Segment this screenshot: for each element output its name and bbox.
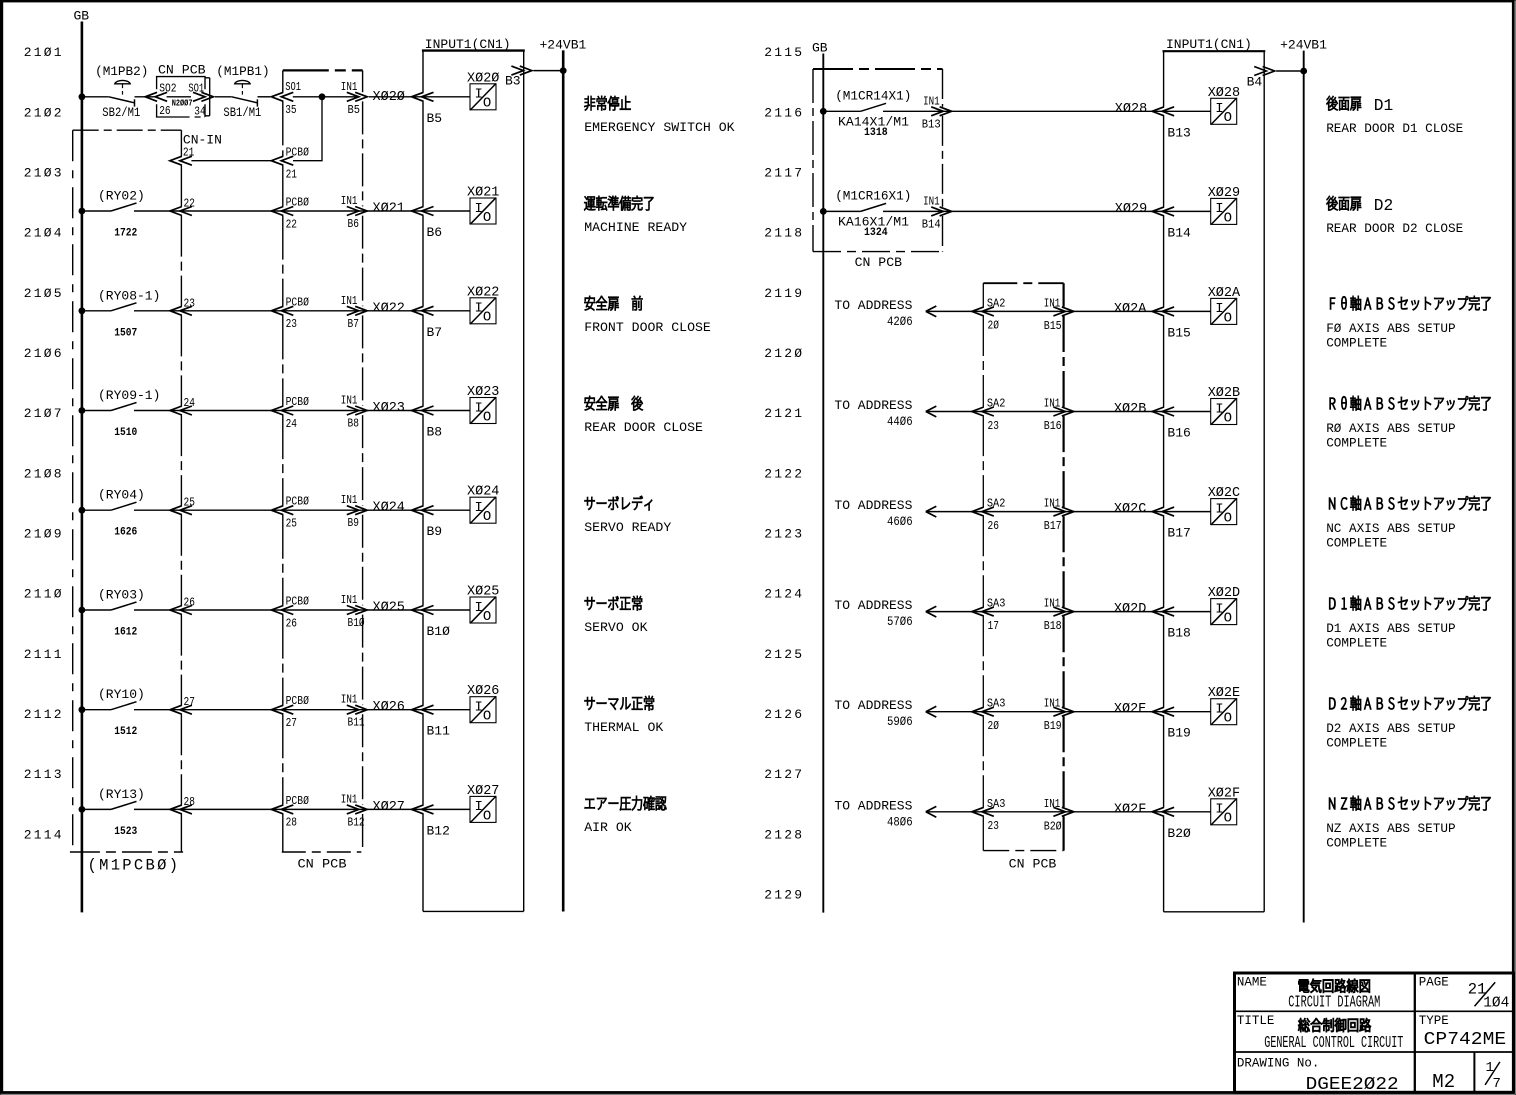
svg-text:TO ADDRESS: TO ADDRESS [834, 298, 912, 313]
relay contact (RY03) value 1612 [98, 588, 145, 639]
junction GB row X029 [820, 208, 827, 215]
svg-text:2112: 2112 [24, 707, 64, 722]
connector pin 23 (CN-IN) chevron [170, 296, 195, 315]
I/O module X029 [1208, 186, 1240, 226]
title block TYPE cell [1419, 1014, 1506, 1050]
svg-text:B12: B12 [427, 823, 450, 838]
svg-text:I: I [1215, 802, 1223, 818]
connector pin B18 chevron (INPUT1) [1152, 607, 1191, 641]
I/O module X02A [1208, 286, 1241, 326]
connector pin IN1/B9 chevron [341, 493, 367, 530]
svg-text:XØ28: XØ28 [1115, 102, 1147, 117]
wire GB to relay RY08-1 [82, 310, 111, 312]
svg-text:XØ2D: XØ2D [1114, 602, 1146, 617]
svg-text:B1Ø: B1Ø [348, 616, 365, 630]
svg-text:I: I [475, 799, 483, 815]
svg-text:I: I [475, 400, 483, 416]
svg-text:TO ADDRESS: TO ADDRESS [834, 798, 912, 813]
connector pin 27 (CN-IN) chevron [170, 695, 195, 714]
svg-text:44Ø6: 44Ø6 [887, 414, 913, 429]
svg-text:21Ø6: 21Ø6 [24, 346, 64, 361]
svg-text:1510: 1510 [114, 427, 137, 439]
svg-text:IN1: IN1 [923, 194, 940, 208]
svg-text:SO1: SO1 [285, 80, 301, 94]
I/O module X02F [1208, 786, 1240, 826]
svg-text:IN1: IN1 [923, 94, 940, 108]
svg-text:22: 22 [286, 217, 297, 231]
svg-text:(M1PCBØ): (M1PCBØ) [88, 857, 181, 875]
label TO ADDRESS 4206 [834, 298, 912, 329]
svg-text:XØ24: XØ24 [373, 501, 405, 516]
svg-text:1Ø4: 1Ø4 [1483, 996, 1509, 1012]
wire GB to relay RY13 [82, 808, 111, 810]
I/O module X023 [467, 385, 499, 425]
svg-text:COMPLETE: COMPLETE [1326, 836, 1387, 851]
svg-text:24: 24 [286, 417, 297, 431]
svg-text:26: 26 [159, 104, 170, 118]
connector pin IN1/B13 chevron (CN PCB) [922, 94, 952, 131]
connector pin PCB0/27 chevron [271, 694, 309, 730]
svg-text:XØ2D: XØ2D [1208, 586, 1240, 601]
I/O module X02B [1208, 386, 1240, 426]
svg-text:DRAWING No.: DRAWING No. [1237, 1056, 1320, 1070]
label (jp) D1 AXIS ABS SETUP [1329, 596, 1490, 610]
svg-text:B5: B5 [427, 111, 443, 126]
wire relay to connector pins [134, 709, 470, 711]
connector pin SA3/17 chevron [972, 597, 1006, 633]
connector pin PCB0/28 chevron [271, 794, 309, 830]
title block sheet 1/7 cell [1485, 1060, 1501, 1092]
svg-text:SB2/M1: SB2/M1 [102, 106, 140, 120]
junction GB row X025 [79, 607, 86, 614]
svg-text:IN1: IN1 [1044, 497, 1061, 511]
label (jp) NC AXIS ABS SETUP [1329, 496, 1490, 510]
connector pin B11 chevron (INPUT1) [412, 705, 451, 739]
I/O module X026 [467, 684, 499, 724]
svg-text:(RY08-1): (RY08-1) [98, 288, 160, 303]
svg-text:B1Ø: B1Ø [427, 624, 451, 639]
svg-text:GENERAL CONTROL CIRCUIT: GENERAL CONTROL CIRCUIT [1264, 1033, 1403, 1052]
relay contact (RY09-1) value 1510 [98, 388, 160, 439]
svg-text:B8: B8 [427, 425, 443, 440]
svg-text:1523: 1523 [114, 826, 137, 838]
svg-text:(RY09-1): (RY09-1) [98, 388, 160, 403]
svg-text:21Ø9: 21Ø9 [24, 527, 64, 542]
connector pin 26 (CN-IN) chevron [170, 596, 195, 615]
connector pin PCB0/26 chevron [271, 595, 309, 631]
svg-text:42Ø6: 42Ø6 [887, 314, 913, 329]
wire GB to relay RY02 [82, 210, 111, 212]
svg-text:O: O [483, 210, 491, 226]
svg-text:XØ2C: XØ2C [1208, 486, 1240, 501]
relay contact (RY02) value 1722 [98, 189, 145, 240]
svg-text:O: O [483, 709, 491, 725]
svg-text:B7: B7 [427, 325, 443, 340]
relay contact (RY08-1) value 1507 [98, 288, 160, 339]
svg-text:SA3: SA3 [987, 797, 1006, 811]
wire branch down to PCB0/21 [293, 97, 322, 161]
svg-text:23: 23 [988, 819, 999, 833]
svg-text:XØ2C: XØ2C [1114, 502, 1146, 517]
junction GB row X023 [79, 407, 86, 414]
I/O module X022 [467, 285, 499, 325]
svg-text:2127: 2127 [764, 767, 804, 782]
push-button SB1/M1 (NC, M1PB1) [216, 64, 269, 120]
svg-text:IN1: IN1 [341, 80, 358, 94]
svg-text:B15: B15 [1044, 319, 1062, 333]
svg-text:2126: 2126 [764, 707, 804, 722]
svg-text:THERMAL OK: THERMAL OK [584, 720, 663, 735]
svg-text:2114: 2114 [24, 827, 64, 842]
line numbers 2115-2129 (right) [764, 45, 804, 902]
svg-text:I: I [475, 700, 483, 716]
svg-text:B2Ø: B2Ø [1167, 826, 1191, 841]
svg-text:24: 24 [184, 396, 195, 410]
svg-text:XØ2B: XØ2B [1114, 402, 1146, 417]
svg-text:21Ø2: 21Ø2 [24, 105, 64, 120]
svg-text:PCBØ: PCBØ [286, 794, 309, 808]
svg-text:XØ25: XØ25 [373, 601, 405, 616]
svg-text:SA2: SA2 [987, 497, 1006, 511]
relay contact (M1CR14X1) KA14X1/M1 value 1318 [835, 88, 911, 139]
wire relay to connector pins [134, 509, 470, 511]
wire relay to INPUT1 (net X029) [883, 210, 1211, 212]
svg-text:M2: M2 [1432, 1071, 1455, 1093]
label (jp) SERVO READY [585, 496, 652, 510]
svg-text:B18: B18 [1044, 619, 1062, 633]
svg-text:I: I [1215, 702, 1223, 718]
svg-text:D1: D1 [1374, 97, 1394, 116]
svg-text:B16: B16 [1167, 426, 1190, 441]
svg-text:B8: B8 [348, 417, 359, 431]
arrow to address 4406 [926, 406, 937, 417]
label (jp) AIR OK [585, 796, 667, 810]
svg-text:1324: 1324 [864, 227, 888, 239]
svg-text:2124: 2124 [764, 587, 804, 602]
svg-text:1318: 1318 [864, 127, 888, 139]
svg-text:2121: 2121 [764, 406, 804, 421]
connector pin IN1/B5 chevron [341, 80, 367, 117]
connector pin B14 chevron (INPUT1) [1152, 207, 1191, 241]
svg-text:XØ27: XØ27 [373, 800, 405, 815]
svg-text:21: 21 [183, 146, 194, 160]
svg-text:XØ2Ø: XØ2Ø [467, 71, 499, 86]
svg-text:23: 23 [184, 296, 195, 310]
svg-text:GB: GB [812, 41, 828, 56]
svg-text:O: O [1224, 210, 1232, 226]
svg-text:PCBØ: PCBØ [286, 146, 309, 160]
connector pin CN-IN/21 chevron [170, 133, 222, 166]
svg-text:AIR OK: AIR OK [584, 820, 632, 835]
wire relay to connector pins [134, 310, 470, 312]
svg-text:IN1: IN1 [341, 394, 358, 408]
wire CN PCB to SB1/M1 [215, 96, 232, 98]
svg-text:CP742ME: CP742ME [1424, 1030, 1507, 1050]
svg-text:XØ29: XØ29 [1208, 186, 1240, 201]
relay contact (RY10) value 1512 [98, 687, 145, 738]
wire relay to INPUT1 (net X028) [883, 110, 1211, 112]
connector pin IN1/B6 chevron [341, 194, 367, 231]
svg-text:(RY13): (RY13) [98, 787, 145, 802]
svg-text:211Ø: 211Ø [24, 587, 64, 602]
svg-text:28: 28 [286, 816, 297, 830]
svg-text:25: 25 [184, 496, 195, 510]
connector pin IN1/B18 chevron (SA box) [1044, 597, 1074, 634]
label (jp) RØ AXIS ABS SETUP [1330, 396, 1491, 410]
connector pin B19 chevron (INPUT1) [1152, 707, 1191, 741]
svg-text:21Ø4: 21Ø4 [24, 226, 64, 241]
svg-text:B6: B6 [427, 225, 443, 240]
wire GB to SB2/M1 [82, 96, 109, 98]
svg-text:21: 21 [286, 167, 297, 181]
arrow to address 5706 [926, 606, 937, 617]
svg-text:SERVO OK: SERVO OK [584, 620, 647, 635]
svg-text:D1 AXIS ABS SETUP: D1 AXIS ABS SETUP [1326, 621, 1455, 636]
svg-text:O: O [483, 609, 491, 625]
svg-text:(RY03): (RY03) [98, 588, 145, 603]
svg-text:O: O [483, 409, 491, 425]
svg-text:O: O [483, 310, 491, 326]
svg-text:O: O [483, 808, 491, 824]
I/O module X02C [1208, 486, 1240, 526]
svg-text:I: I [475, 600, 483, 616]
wire SB2 to CN PCB module [135, 96, 157, 98]
wire relay to connector pins [134, 410, 470, 412]
svg-text:B16: B16 [1044, 419, 1062, 433]
svg-text:XØ23: XØ23 [373, 401, 405, 416]
svg-text:B15: B15 [1167, 325, 1190, 340]
svg-text:XØ21: XØ21 [373, 202, 405, 217]
wire SB1 to pin SO1/35 [258, 96, 271, 98]
connector pin SO1/35 chevron [271, 80, 301, 117]
wire GB to relay RY04 [82, 509, 111, 511]
svg-text:26: 26 [286, 616, 297, 630]
svg-text:2117: 2117 [764, 166, 804, 181]
svg-text:SA2: SA2 [987, 296, 1006, 310]
connector pin B3 (+24V feed, left) [505, 66, 532, 88]
svg-text:I: I [1215, 201, 1223, 217]
svg-text:+24VB1: +24VB1 [1280, 38, 1327, 53]
junction GB row 2102 [79, 93, 86, 100]
wire inside CN PCB module [167, 96, 191, 98]
wire GB to relay RY10 [82, 709, 111, 711]
I/O module X024 [467, 485, 499, 525]
svg-text:21Ø8: 21Ø8 [24, 466, 64, 481]
boundary column CN-IN pins (dash-dot) [180, 130, 182, 852]
svg-text:O: O [1224, 711, 1232, 727]
connector pin B8 chevron (INPUT1) [412, 406, 443, 440]
connector pin SO2/26 chevron [145, 92, 167, 101]
connector pin SA2/23 chevron [972, 397, 1006, 433]
connector pin IN1/B12 chevron [341, 792, 367, 829]
wire address arrow to SA pins (net X02B) [926, 411, 1211, 413]
svg-text:XØ25: XØ25 [467, 585, 499, 600]
svg-text:I: I [1215, 301, 1223, 317]
junction GB row X021 [79, 208, 86, 215]
svg-text:REAR DOOR CLOSE: REAR DOOR CLOSE [584, 420, 703, 435]
svg-text:D2 AXIS ABS SETUP: D2 AXIS ABS SETUP [1326, 721, 1455, 736]
svg-text:23: 23 [988, 419, 999, 433]
svg-text:+24VB1: +24VB1 [540, 38, 587, 53]
svg-text:NC AXIS ABS SETUP: NC AXIS ABS SETUP [1326, 521, 1455, 536]
relay contact (RY13) value 1523 [98, 787, 145, 838]
svg-text:O: O [1224, 110, 1232, 126]
svg-text:IN1: IN1 [1044, 597, 1061, 611]
connector pin IN1/B8 chevron [341, 394, 367, 431]
connector pin IN1/B14 chevron (CN PCB) [922, 194, 952, 231]
svg-text:CN PCB: CN PCB [298, 857, 347, 872]
label TO ADDRESS 4606 [834, 498, 912, 529]
label (jp) FØ AXIS ABS SETUP [1330, 296, 1490, 310]
svg-text:XØ2F: XØ2F [1114, 802, 1146, 817]
svg-text:SERVO READY: SERVO READY [584, 520, 671, 535]
svg-text:RØ AXIS ABS SETUP: RØ AXIS ABS SETUP [1326, 421, 1455, 436]
svg-text:I: I [475, 301, 483, 317]
junction GB row X022 [79, 307, 86, 314]
svg-text:IN1: IN1 [341, 194, 358, 208]
boundary box CN PCB (SA2/SA3, dash-dot) [983, 283, 1063, 850]
title block frame [1235, 973, 1514, 1092]
svg-text:(M1PB1): (M1PB1) [216, 64, 269, 79]
label (jp) SERVO OK [585, 596, 642, 610]
svg-text:B19: B19 [1167, 726, 1190, 741]
svg-text:57Ø6: 57Ø6 [887, 614, 913, 629]
svg-text:XØ28: XØ28 [1208, 86, 1240, 101]
I/O module X027 [467, 784, 499, 824]
wire address arrow to SA pins (net X02A) [926, 310, 1211, 312]
label (jp) NZ AXIS ABS SETUP [1329, 796, 1490, 810]
junction +24VB1/B3 [560, 67, 567, 74]
svg-text:IN1: IN1 [1044, 797, 1061, 811]
svg-text:TO ADDRESS: TO ADDRESS [834, 398, 912, 413]
connector pin SA3/23 chevron [972, 797, 1006, 833]
svg-text:34: 34 [194, 105, 205, 119]
svg-text:2116: 2116 [764, 105, 804, 120]
svg-text:2122: 2122 [764, 466, 804, 481]
svg-text:1626: 1626 [114, 527, 137, 539]
wire GB to relay RY09-1 [82, 410, 111, 412]
svg-text:I: I [1215, 401, 1223, 417]
svg-text:FRONT DOOR CLOSE: FRONT DOOR CLOSE [584, 320, 711, 335]
svg-text:CN PCB: CN PCB [158, 64, 206, 78]
svg-text:I: I [1215, 501, 1223, 517]
connector pin SO1/34 chevron [193, 92, 213, 101]
svg-text:XØ24: XØ24 [467, 485, 499, 500]
svg-text:2119: 2119 [764, 286, 804, 301]
connector pin B4 (+24V feed, right) [1247, 67, 1275, 90]
junction +24VB1/B4 [1300, 68, 1307, 75]
title block DRAWING No. cell [1237, 1056, 1399, 1095]
wire address arrow to SA pins (net X02D) [926, 611, 1211, 613]
connector pin B20 chevron (INPUT1) [1152, 807, 1191, 841]
svg-text:B17: B17 [1044, 519, 1062, 533]
svg-text:21Ø1: 21Ø1 [24, 45, 64, 60]
connector pin PCB0/23 chevron [271, 295, 309, 331]
label TO ADDRESS 4406 [834, 398, 912, 429]
svg-text:(RY04): (RY04) [98, 488, 145, 503]
wire GB to relay RY03 [82, 609, 111, 611]
svg-text:PAGE: PAGE [1419, 976, 1449, 990]
svg-text:1722: 1722 [114, 228, 137, 240]
svg-text:B18: B18 [1167, 626, 1190, 641]
svg-text:PCBØ: PCBØ [286, 196, 309, 210]
connector pin IN1/B15 chevron (SA box) [1044, 296, 1074, 333]
boundary box CN PCB (left, dash-dot) [282, 70, 363, 852]
svg-text:35: 35 [285, 103, 296, 117]
svg-text:48Ø6: 48Ø6 [887, 814, 913, 829]
svg-text:59Ø6: 59Ø6 [887, 714, 913, 729]
connector INPUT1(CN1) box (left) [422, 51, 525, 912]
label (jp) D2 AXIS ABS SETUP [1329, 696, 1490, 710]
svg-text:2123: 2123 [764, 527, 804, 542]
wire SO1/35 to IN1/B5 [293, 96, 359, 98]
svg-text:CN PCB: CN PCB [1009, 858, 1057, 872]
wire GB to relay KA16X1/M1 [823, 210, 860, 212]
svg-text:(RY10): (RY10) [98, 687, 145, 702]
svg-text:O: O [483, 96, 491, 112]
svg-text:N2ØØ7: N2ØØ7 [172, 99, 193, 109]
connector pin IN1/B16 chevron (SA box) [1044, 397, 1074, 434]
relay contact (M1CR16X1) KA16X1/M1 value 1324 [835, 188, 911, 239]
wire B4 to +24VB1 bus [1276, 70, 1304, 72]
connector pin IN1/B19 chevron (SA box) [1044, 697, 1074, 734]
svg-text:IN1: IN1 [341, 294, 358, 308]
svg-text:XØ23: XØ23 [467, 385, 499, 400]
svg-text:21Ø3: 21Ø3 [24, 166, 64, 181]
svg-text:22: 22 [184, 197, 195, 211]
I/O module X020 [467, 71, 499, 111]
svg-text:REAR DOOR D1 CLOSE: REAR DOOR D1 CLOSE [1326, 121, 1463, 136]
connector pin PCB0/22 chevron [271, 196, 309, 232]
title block PAGE cell [1419, 976, 1510, 1012]
title NAME jp: CIRCUIT DIAGRAM [1299, 979, 1370, 993]
label (jp) MACHINE READY [584, 196, 653, 211]
svg-text:1512: 1512 [114, 726, 137, 738]
svg-text:XØ26: XØ26 [373, 700, 405, 715]
svg-text:B14: B14 [1167, 225, 1191, 240]
svg-text:2118: 2118 [764, 226, 804, 241]
bus +24VB1 (left) [562, 50, 565, 911]
svg-text:17: 17 [988, 619, 999, 633]
svg-text:B4: B4 [1247, 75, 1263, 90]
svg-text:TO ADDRESS: TO ADDRESS [834, 698, 912, 713]
junction GB row X027 [79, 806, 86, 813]
svg-text:TO ADDRESS: TO ADDRESS [834, 498, 912, 513]
svg-text:COMPLETE: COMPLETE [1326, 636, 1387, 651]
svg-text:B2Ø: B2Ø [1044, 819, 1062, 833]
svg-text:XØ2A: XØ2A [1208, 286, 1241, 301]
svg-text:NZ AXIS ABS SETUP: NZ AXIS ABS SETUP [1326, 821, 1455, 836]
svg-text:2111: 2111 [24, 647, 64, 662]
svg-text:26: 26 [988, 519, 999, 533]
svg-text:EMERGENCY SWITCH OK: EMERGENCY SWITCH OK [584, 120, 734, 135]
connector pin PCB0/21 chevron [271, 146, 309, 182]
svg-text:2Ø: 2Ø [988, 319, 999, 333]
label TO ADDRESS 5706 [834, 598, 912, 629]
svg-text:IN1: IN1 [341, 593, 358, 607]
svg-text:27: 27 [286, 716, 297, 730]
svg-text:PCBØ: PCBØ [286, 595, 309, 609]
label TO ADDRESS 5906 [834, 698, 912, 729]
svg-text:I: I [475, 500, 483, 516]
svg-text:O: O [1224, 410, 1232, 426]
label (jp) REAR DOOR D2 CLOSE [1327, 196, 1362, 211]
svg-text:I: I [475, 87, 483, 103]
push-button SB2/M1 (NC, M1PB2) [95, 64, 148, 120]
svg-text:O: O [1224, 811, 1232, 827]
arrow to address 4206 [926, 306, 937, 317]
title TITLE jp: GENERAL CONTROL CIRCUIT [1298, 1018, 1371, 1032]
